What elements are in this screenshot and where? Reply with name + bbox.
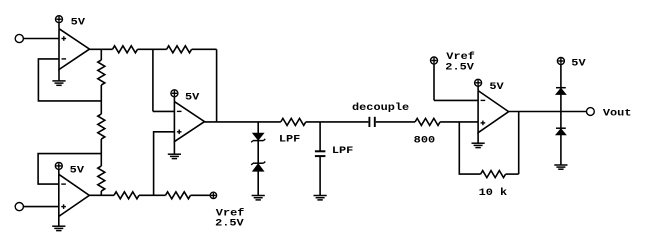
svg-text:Vout: Vout	[603, 107, 632, 118]
svg-text:5V: 5V	[571, 58, 585, 69]
svg-text:LPF: LPF	[332, 145, 354, 156]
svg-text:2.5V: 2.5V	[215, 218, 244, 229]
svg-text:5V: 5V	[185, 92, 199, 103]
svg-text:10 k: 10 k	[479, 187, 508, 198]
svg-text:LPF: LPF	[279, 134, 301, 145]
svg-text:5V: 5V	[71, 16, 85, 27]
svg-text:5V: 5V	[489, 81, 503, 92]
svg-text:5V: 5V	[70, 164, 84, 175]
svg-text:decouple: decouple	[352, 102, 409, 113]
svg-text:2.5V: 2.5V	[445, 61, 474, 72]
svg-text:800: 800	[414, 134, 436, 145]
